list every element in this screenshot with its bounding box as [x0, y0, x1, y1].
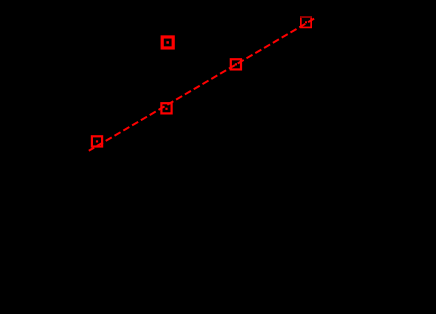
data point marker 4 (open square, top right): [300, 17, 312, 27]
data point marker 2 (open square): [161, 103, 171, 113]
data point marker 5 (outlier, thick open square): [162, 37, 173, 48]
fit line (dashed red trend line): [89, 18, 315, 151]
data point marker 3 (open square): [231, 59, 241, 69]
data point marker 1 (open square, bottom left): [92, 136, 102, 146]
